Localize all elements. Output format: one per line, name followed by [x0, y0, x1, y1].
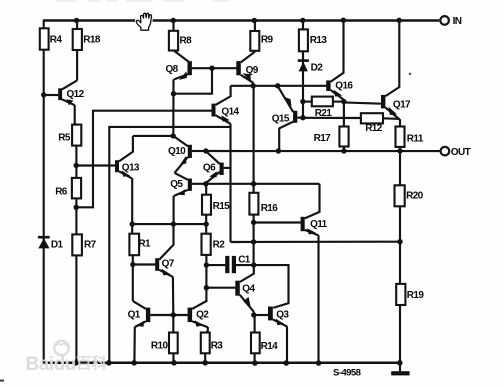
resistor R6	[55, 178, 81, 199]
transistor Q13	[76, 136, 140, 179]
mark bottom-left edge dash	[0, 380, 4, 382]
wire bus C (Q13 collector to Q8 emitter column)	[133, 135, 173, 137]
resistor R3	[201, 333, 224, 354]
wire Q17 base	[344, 102, 381, 103]
node Q7 collector junction	[171, 221, 176, 226]
wire Q4 emitter to Q3 base node	[253, 312, 255, 315]
svg-text:S-4958: S-4958	[333, 367, 362, 378]
svg-text:D1: D1	[51, 239, 64, 250]
transistor Q17	[381, 20, 411, 119]
svg-text:Q12: Q12	[67, 89, 85, 100]
wire bias bus y184	[206, 183, 320, 185]
resistor R7	[72, 234, 96, 255]
svg-text:Q14: Q14	[221, 106, 239, 117]
svg-text:R20: R20	[406, 190, 424, 201]
wire left column (R4/D1 branch)	[43, 20, 45, 364]
wire R8 column	[172, 20, 174, 52]
watermark Baidu Baike	[26, 341, 108, 375]
svg-text:R9: R9	[261, 34, 274, 45]
svg-text:D2: D2	[311, 62, 324, 73]
node R5/R6 junction (Q13 base)	[74, 163, 79, 168]
resistor R8	[169, 31, 192, 51]
node Q8/Q9 base junction	[209, 66, 214, 71]
wire R20-R19 column	[399, 151, 401, 363]
transistor Q9	[236, 52, 258, 83]
svg-text:Q4: Q4	[242, 283, 255, 294]
svg-text:Baidu: Baidu	[26, 354, 76, 375]
wire top positive rail	[44, 19, 440, 22]
resistor R13	[299, 29, 327, 51]
transistor Q14	[212, 86, 240, 124]
svg-text:R11: R11	[407, 133, 424, 144]
node rail/Q3 emitter	[283, 360, 289, 366]
svg-text:Q17: Q17	[393, 99, 411, 110]
node Q9 emitter junction	[251, 83, 256, 88]
wire Q13 emitter / R1 column	[131, 178, 133, 234]
wire R13-D2 column	[302, 20, 304, 118]
wire base bus y224	[132, 223, 206, 225]
wire R9 column	[254, 20, 256, 52]
node C1 right junction	[251, 262, 256, 267]
node rail/bus B	[106, 360, 112, 366]
wire Q3 emitter column	[286, 326, 288, 363]
svg-text:R4: R4	[50, 35, 63, 46]
node rail/R14	[252, 360, 258, 366]
wire bus A (R6/R7 node to Q14 base)	[76, 111, 212, 208]
wire main output bus y151	[206, 150, 441, 152]
resistor R1	[129, 234, 151, 256]
node Q15 base junction	[300, 115, 305, 120]
resistor R14	[251, 333, 278, 354]
resistor R21	[303, 97, 344, 120]
ground symbol	[391, 363, 409, 376]
svg-text:Q13: Q13	[122, 162, 140, 173]
transistor Q2	[188, 301, 210, 327]
svg-text:R17: R17	[314, 133, 332, 144]
resistor R18	[73, 29, 101, 50]
node top rail / Q16 collector	[341, 18, 346, 23]
wire Q7 base	[133, 263, 156, 265]
node rail / R19 ground junction	[397, 360, 403, 366]
svg-text:Q5: Q5	[170, 179, 183, 190]
node R16 top junction	[251, 181, 256, 186]
svg-text:R13: R13	[310, 35, 328, 46]
wire R3 bottom stub	[204, 353, 206, 363]
wire R17 column	[343, 102, 345, 151]
transistor Q8	[166, 61, 192, 80]
svg-text:Q1: Q1	[128, 310, 141, 321]
node Q7 base tap	[130, 262, 135, 267]
mark small scan speck	[409, 73, 411, 75]
svg-text:Q16: Q16	[335, 81, 353, 92]
wire Q8 emitter column down	[172, 79, 174, 136]
node R6/R7 junction (bus A tap)	[74, 205, 79, 210]
resistor R19	[396, 284, 424, 305]
wire Q1/Q2 base link	[150, 314, 187, 316]
wire Q9 emitter stub	[252, 83, 254, 86]
node feedback / R19 junction	[397, 239, 402, 244]
wire Q1 emitter column	[133, 327, 136, 364]
resistor R5	[58, 125, 81, 146]
wire Q2 emitter to R3	[207, 327, 208, 333]
transistor Q6	[203, 151, 231, 184]
resistor R2	[202, 224, 226, 255]
svg-text:IN: IN	[453, 16, 462, 27]
svg-text:Q8: Q8	[166, 64, 179, 75]
wire Q12 emitter to R5	[75, 105, 77, 125]
hand cursor icon	[135, 13, 153, 30]
wire Q8 diode-connect loop	[174, 68, 213, 94]
svg-text:Q11: Q11	[310, 219, 328, 230]
svg-text:Q9: Q9	[246, 65, 259, 76]
node rail/R7	[73, 360, 79, 366]
node Q15 emitter junction	[275, 83, 280, 88]
transistor Q10	[168, 136, 206, 173]
svg-text:R15: R15	[213, 201, 231, 212]
resistor R11	[396, 127, 424, 147]
wire R8 to Q8 collector	[174, 50, 190, 62]
resistor R12	[303, 113, 400, 134]
wire Q3 collector loop	[254, 265, 289, 308]
wire R11 column	[399, 119, 400, 151]
resistor R10	[151, 333, 178, 354]
node rail/Q1 emitter	[131, 360, 137, 366]
node top rail / R13	[300, 18, 305, 23]
node R17 bottom junction	[341, 148, 346, 153]
svg-text:R18: R18	[83, 35, 101, 46]
node rail/R10	[171, 360, 177, 366]
svg-text:Q2: Q2	[196, 310, 209, 321]
svg-text:OUT: OUT	[451, 147, 471, 158]
svg-text:C1: C1	[238, 255, 251, 266]
wire Q7 emitter column	[172, 277, 175, 315]
wire bus B (ground rail to Q14 emitter line)	[109, 127, 230, 363]
wire R15-R2 column	[205, 184, 207, 195]
svg-text:R1: R1	[138, 238, 151, 249]
node Q4 base tap	[204, 285, 209, 290]
node Q1/Q2 base / R10 junction	[171, 312, 176, 317]
transistor Q5	[170, 173, 206, 196]
svg-text:Q6: Q6	[203, 162, 216, 173]
wire R14 column	[254, 315, 256, 364]
wire Q8 base to Q9 base	[192, 67, 237, 69]
svg-text:R19: R19	[407, 290, 425, 301]
node Q5/Q6 base junction	[203, 181, 208, 186]
wire mid column R16 (Q9 emitter down to C1 right)	[253, 86, 255, 193]
diode D2	[298, 61, 324, 74]
terminal IN	[440, 16, 461, 27]
transistor Q15	[272, 86, 303, 150]
node R1 top junction	[130, 221, 135, 226]
svg-text:R7: R7	[84, 239, 97, 250]
transistor Q1	[128, 301, 151, 327]
wire R5-R6-R7 column	[75, 146, 77, 364]
node R15/R2 junction	[204, 221, 209, 226]
node R11 bottom / R20 top junction	[397, 148, 402, 153]
svg-text:Q10: Q10	[168, 146, 186, 157]
resistor R20	[395, 185, 424, 206]
svg-text:百科: 百科	[76, 353, 108, 372]
node feedback tap on R16 column	[251, 239, 256, 244]
node top rail / R9	[252, 18, 257, 23]
node C1 left junction	[204, 262, 209, 267]
node Q8 emitter loop tap	[171, 91, 176, 96]
diode D1	[38, 237, 64, 250]
transistor Q12	[58, 80, 84, 105]
svg-text:R5: R5	[58, 133, 71, 144]
svg-text:R3: R3	[211, 341, 224, 352]
node R21 left junction	[300, 99, 305, 104]
resistor R16	[249, 193, 278, 215]
svg-text:R16: R16	[261, 203, 279, 214]
svg-text:R8: R8	[180, 35, 193, 46]
wire Q14 emitter / Q6 base bus down to feedback wire	[229, 124, 231, 242]
wire R18 column	[76, 20, 78, 81]
wire Q11 base	[254, 221, 301, 223]
node R21 right / Q16 emitter junction	[341, 99, 346, 104]
transistor Q11	[301, 184, 328, 236]
svg-text:Q3: Q3	[276, 309, 289, 320]
node Q8 emitter / Q10 collector junction	[171, 133, 176, 138]
wire R1 bottom column	[132, 255, 134, 301]
wire mid bus y86 (Q14 col to Q16 base)	[231, 85, 327, 87]
node rail/Q11 emitter	[316, 360, 322, 366]
resistor R17	[314, 127, 349, 147]
svg-text:Q15: Q15	[272, 114, 290, 125]
node rail/R3	[202, 360, 208, 366]
svg-text:R6: R6	[55, 187, 68, 198]
node R16 bottom / Q11 base junction	[251, 220, 256, 225]
wire Q5 emitter column	[173, 196, 175, 224]
node Q15 collector junction	[276, 148, 281, 153]
svg-text:R2: R2	[213, 240, 226, 251]
transistor Q7	[155, 224, 175, 277]
wire R10 column	[172, 315, 174, 364]
transistor Q16	[326, 20, 353, 100]
node R4 top rail junction	[74, 18, 79, 23]
svg-text:R14: R14	[261, 341, 279, 352]
resistor R9	[250, 31, 273, 51]
node Q12 base tap on left column	[41, 92, 46, 97]
wire long feedback y242	[231, 241, 401, 243]
capacitor C1	[206, 255, 253, 274]
node Q4 emitter / Q3 base junction	[251, 312, 256, 317]
wire bottom ground rail	[44, 361, 401, 364]
transistor Q3	[254, 307, 290, 327]
svg-text:R12: R12	[365, 123, 383, 134]
svg-text:R10: R10	[151, 341, 169, 352]
transistor Q4	[206, 265, 255, 312]
wire R15 bottom stub	[205, 215, 207, 225]
wire Q12 base	[44, 94, 59, 96]
wire Q11 emitter column to ground rail	[317, 235, 319, 363]
svg-text:Q7: Q7	[162, 258, 175, 269]
resistor R4	[40, 28, 63, 49]
node Q10 base junction	[203, 148, 208, 153]
node top rail / R8	[171, 18, 176, 23]
wire R2 bottom / Q2 collector column	[205, 255, 207, 301]
terminal OUT	[441, 147, 471, 158]
marks faint top scan dashes	[56, 0, 229, 2]
resistor R15	[202, 195, 230, 215]
node top rail / Q17 collector	[397, 18, 402, 23]
